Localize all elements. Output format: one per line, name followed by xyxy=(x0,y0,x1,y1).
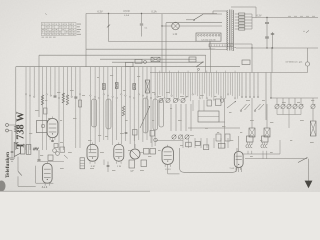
wire: primary top lead xyxy=(213,11,228,14)
power transformer T1 core xyxy=(229,10,231,51)
V7 pins xyxy=(236,168,241,173)
label 0,1A xyxy=(151,9,157,13)
coupling capacitor C20 xyxy=(38,150,41,161)
dial lamp symbol xyxy=(107,25,110,28)
capacitor C30 on branch xyxy=(140,13,148,37)
wave switch contact arm xyxy=(196,61,204,70)
wire: rail y=98 right xyxy=(270,97,318,99)
wire: verticals to LS boxes xyxy=(252,98,267,128)
title: model name T 738 W (rotated) xyxy=(16,111,27,149)
wire: trimmer common bus xyxy=(277,109,301,128)
pointer arrowhead xyxy=(305,181,313,189)
tiny value labels scattered xyxy=(29,75,314,171)
coil L5 hatched box xyxy=(145,80,150,93)
wire: AVC rail y=66.7 xyxy=(16,67,240,150)
mains plug box 2 xyxy=(262,136,269,142)
label 0,5A xyxy=(123,10,130,17)
coupling box xyxy=(189,57,196,62)
wire: primary bottom lead xyxy=(210,41,228,49)
comb stub wires to dial box xyxy=(193,100,204,111)
wire: secondary top lead xyxy=(231,7,256,18)
left wiring verticals from AVC rail xyxy=(25,67,156,152)
resistor R13 hatched xyxy=(151,57,160,61)
round tube V5 xyxy=(130,144,140,159)
wire: B+ rail y=48 xyxy=(236,47,318,49)
feedback loop wire big rounded xyxy=(180,148,237,172)
title: Telefunken brand (rotated) xyxy=(5,152,11,178)
ground symbol xyxy=(9,158,15,161)
wire: vertical x=271 xyxy=(270,73,271,99)
scan line bottom edge xyxy=(0,190,150,192)
component cluster above V5 xyxy=(125,130,158,149)
capacitor C52 xyxy=(271,32,274,49)
resistor box left edge xyxy=(80,158,85,169)
label AL4 xyxy=(42,186,48,189)
wire: rail y=55.2 with corner xyxy=(39,55,206,117)
tuning capacitor CV3 xyxy=(173,98,177,102)
output transformer xyxy=(26,145,31,155)
transformer secondary winding xyxy=(233,10,234,51)
transformer primary winding xyxy=(227,11,228,51)
wire: 6.3V rail right xyxy=(255,14,319,17)
wire: cord junction y=158.7 xyxy=(245,158,306,160)
wire: h-link y=140.5 xyxy=(156,140,183,142)
resistor zigzag between cans xyxy=(122,106,124,116)
label under V6 xyxy=(166,169,172,171)
paper background xyxy=(0,0,320,192)
tube V4 xyxy=(114,142,124,163)
resistor zigzag on left drop xyxy=(15,125,18,132)
plus polarity marker xyxy=(303,29,309,33)
resistor R2 xyxy=(115,83,118,89)
wire: horizontal y=22.7 to transformer xyxy=(166,22,222,24)
padder box xyxy=(207,100,212,106)
tuning capacitor CV4 xyxy=(181,98,185,102)
tube V1 RF xyxy=(47,117,58,148)
wire: vertical x=266 xyxy=(265,73,267,121)
wire: rail y=49.2 xyxy=(86,48,215,50)
wire: dial lamp branch vertical xyxy=(108,13,109,42)
wire: lamp left lead xyxy=(162,25,171,27)
resistor boxes right of V5 xyxy=(140,149,156,155)
wire: bottom return left xyxy=(18,185,36,187)
wire: switch rail y=72.5 xyxy=(150,72,308,74)
trimmer disc xyxy=(144,61,147,64)
smudge bottom-left corner xyxy=(0,181,6,192)
coil box right edge xyxy=(310,109,316,136)
switch bank section 2 xyxy=(241,73,259,98)
wire: horizontal return y=41.5 xyxy=(109,41,197,43)
fuse stack on secondary taps xyxy=(235,13,255,30)
cord coil 1 xyxy=(246,142,252,148)
label 6,3V heater voltage xyxy=(97,9,103,13)
label under V4 xyxy=(117,166,122,168)
tube V6 xyxy=(162,145,180,174)
small box component xyxy=(79,100,82,107)
wire: vertical x=252 xyxy=(251,48,253,73)
wire: plug leads down xyxy=(248,151,267,159)
wire: h-link y=128 xyxy=(188,127,240,129)
tuning capacitor CV1 xyxy=(159,98,163,102)
label under V3 xyxy=(91,166,96,168)
oscillator coil verticals xyxy=(171,104,191,131)
paper noise texture xyxy=(0,0,320,192)
coil box LS1 xyxy=(249,128,255,137)
tube data table xyxy=(41,23,81,38)
rectifier tube V7 xyxy=(234,136,243,170)
wire: cord junction y=154 xyxy=(243,140,280,154)
switch on speaker lead xyxy=(18,171,22,186)
voltage selector plate xyxy=(196,33,221,41)
wire: selector to return rail xyxy=(197,41,211,49)
cord coil 2 xyxy=(261,142,267,148)
switch arrows group2 xyxy=(254,104,264,111)
wire: drop to pointer xyxy=(308,159,310,181)
trimmer CT1 xyxy=(275,104,279,108)
antenna terminal xyxy=(6,124,16,127)
trimmer bank right xyxy=(277,98,301,104)
padder box 2 xyxy=(216,99,222,106)
speaker xyxy=(14,143,25,157)
band filter box xyxy=(37,121,48,133)
note text mit Wellenschalter gekuppelt xyxy=(285,61,303,64)
trimmer CT2 xyxy=(281,104,285,108)
vignette overlay xyxy=(0,0,320,192)
tuning arrow through cans xyxy=(140,106,150,128)
trimmer CT4 xyxy=(293,104,297,108)
tube V3 xyxy=(87,142,98,163)
mains switch contact xyxy=(186,14,222,21)
tuning capacitor CV2 xyxy=(166,98,170,102)
trimmer row mid xyxy=(172,135,189,139)
wave-change switch S1 contact bank xyxy=(157,71,240,102)
resistor R5 zigzag xyxy=(62,93,64,103)
dial drive box xyxy=(198,111,219,122)
wire: vertical x=210.4 xyxy=(209,47,211,73)
electrolytic capacitor C50 xyxy=(265,17,269,49)
wire: vertical x=166 xyxy=(165,23,167,73)
stray mark top-left xyxy=(45,14,47,15)
wire: h-link y=122 xyxy=(219,121,225,123)
trimmer circle xyxy=(220,99,224,103)
wire: heater bus top horizontal xyxy=(86,13,217,15)
coupling boxes lower xyxy=(216,134,230,141)
grid components cluster xyxy=(37,147,68,162)
wire: rail y=62.2 xyxy=(112,61,203,63)
lamp L22 xyxy=(172,22,180,36)
wire: speaker down lead xyxy=(17,157,19,172)
earth terminal xyxy=(6,129,14,158)
trimmer right edge xyxy=(311,98,315,109)
wires into loop xyxy=(183,138,228,148)
small box above V1 xyxy=(44,108,48,114)
IF can F4 xyxy=(153,99,158,130)
adjust arrow xyxy=(227,101,236,108)
resistor R12 xyxy=(135,59,142,63)
wire: lamp right lead to transformer xyxy=(180,25,222,27)
resistor R4 zigzag xyxy=(41,95,43,105)
wire: heater bus left vertical xyxy=(85,14,87,67)
IF can F2 xyxy=(106,99,111,129)
lamp circle right xyxy=(305,48,309,73)
mains plug box 1 xyxy=(247,136,254,142)
wire: long vertical x=162 xyxy=(161,14,162,73)
resistor box below xyxy=(141,160,147,167)
tube V2 output AL4 xyxy=(43,161,53,185)
IF can F5 xyxy=(159,100,164,127)
IF can F3 xyxy=(143,98,148,133)
fuse holder strip under selector xyxy=(209,44,233,47)
dashes above rail xyxy=(288,15,315,17)
wire: V2 cathode to return xyxy=(36,166,54,184)
arrow into junction xyxy=(298,158,308,163)
resistor R6 zigzag xyxy=(66,95,68,105)
wire: secondary lower taps xyxy=(234,44,252,49)
capacitor block 4uF xyxy=(129,160,135,173)
electrolytic capacitor C51 xyxy=(265,37,269,38)
capacitor C5 xyxy=(74,97,77,98)
trimmer CT3 xyxy=(287,104,291,108)
resistor zigzag near speaker xyxy=(33,148,39,150)
IF can F1 xyxy=(92,99,97,127)
switch arrows left of trimmers xyxy=(240,104,250,111)
resistor R3 xyxy=(133,84,136,90)
capacitor C6 xyxy=(53,96,56,97)
box on right rail xyxy=(242,60,250,65)
wire: vertical x=224.7 xyxy=(224,98,226,148)
resistor R11 on rail xyxy=(126,62,134,66)
coil box LS2 xyxy=(264,128,270,137)
trimmer CT5 xyxy=(299,104,303,108)
wire: vertical x=205.7 xyxy=(205,55,207,72)
marks between V3 and V4 xyxy=(104,160,109,173)
wire: rail y=59.2 xyxy=(100,58,196,60)
boxes inside loop xyxy=(186,141,225,149)
wire: vertical x=272 xyxy=(271,47,272,72)
resistor R1 xyxy=(103,84,106,90)
label inside loop xyxy=(229,168,235,170)
